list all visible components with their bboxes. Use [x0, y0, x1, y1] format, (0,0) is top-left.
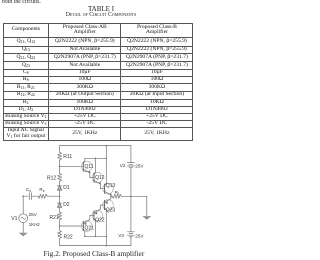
wire riser rail to Q13 collector	[105, 146, 107, 184]
resistor R11	[58, 152, 62, 160]
node V1 corner	[22, 195, 24, 197]
wire V3 to bottom rail	[130, 237, 132, 246]
node riser on top rail	[106, 145, 108, 147]
wire output to RL	[111, 195, 112, 197]
wire Q11 base lead	[60, 165, 84, 167]
bottom rail	[60, 245, 131, 247]
node R11/R12 junction	[59, 166, 61, 168]
AC source V1	[19, 214, 28, 223]
table title	[4, 5, 198, 13]
svg-text:V2: V2	[120, 163, 126, 168]
wire R21 to node	[59, 220, 61, 226]
wire RL to supply midpoint	[122, 195, 147, 197]
wire midpoint to V3	[130, 196, 132, 232]
node riser on bottom rail	[106, 245, 108, 247]
wire Q21 base lead	[60, 225, 84, 227]
wire D1 to input node	[59, 190, 61, 196]
wire D2 to R21	[59, 207, 61, 212]
transistor Q23	[103, 196, 114, 210]
transistor Q11	[82, 158, 95, 177]
schematic figure	[0, 0, 194, 260]
diode D1	[57, 186, 62, 190]
wire node to R22	[59, 226, 61, 231]
svg-text:V1: V1	[11, 216, 17, 222]
svg-text:R21: R21	[50, 215, 59, 221]
resistor R22	[58, 231, 62, 239]
svg-text:Q11: Q11	[85, 164, 94, 170]
svg-text:Q23: Q23	[106, 207, 116, 213]
svg-text:Q12: Q12	[95, 175, 105, 181]
transistor Q12	[92, 158, 105, 188]
svg-text:25V: 25V	[135, 164, 144, 169]
transistor Q13	[103, 183, 114, 196]
svg-text:R11: R11	[63, 154, 72, 160]
battery V2	[127, 163, 134, 168]
top rail	[60, 145, 131, 147]
node input junction	[59, 195, 61, 197]
diode D2	[57, 203, 62, 207]
wire R column top	[59, 146, 61, 153]
figure caption	[44, 249, 145, 258]
svg-text:V3: V3	[118, 233, 124, 238]
table: detail of circuit components	[3, 23, 194, 141]
ground V1	[19, 233, 28, 237]
wire input node to D2	[59, 196, 61, 203]
transistor Q21	[82, 216, 95, 237]
resistor RL	[112, 194, 121, 198]
svg-text:D1: D1	[63, 185, 70, 191]
transistor Q22	[92, 205, 105, 236]
wire Cs to Rs	[32, 195, 39, 197]
svg-text:25V: 25V	[29, 212, 38, 217]
wire R22 to bottom rail	[59, 239, 61, 246]
svg-text:Q13: Q13	[106, 183, 116, 189]
collector bus upper	[85, 157, 107, 159]
node Q22 collector on lower bus	[95, 236, 97, 238]
wire R12 to D1	[59, 181, 61, 186]
resistor R12	[58, 173, 62, 181]
svg-text:Q22: Q22	[95, 217, 105, 223]
wire V1 top to input	[23, 196, 28, 214]
wire R11 to node	[59, 160, 61, 166]
top partial paragraph text	[2, 0, 41, 5]
svg-text:25V: 25V	[135, 233, 144, 238]
svg-text:RL: RL	[115, 190, 120, 196]
wire V1 bottom to ground	[22, 223, 24, 233]
node midpoint junction	[130, 196, 132, 198]
ground	[142, 216, 151, 220]
svg-text:R22: R22	[64, 235, 73, 241]
battery V3	[127, 232, 134, 237]
svg-text:1KHz: 1KHz	[29, 222, 41, 227]
resistor R21	[58, 212, 62, 220]
wire Rs to input node	[47, 195, 59, 197]
svg-text:Cs: Cs	[26, 187, 31, 193]
resistor Rs	[38, 194, 47, 198]
wire node to R12	[59, 166, 61, 173]
capacitor Cs	[29, 193, 31, 200]
svg-text:Rs: Rs	[39, 187, 44, 193]
node Q12 collector on bus	[95, 158, 97, 160]
svg-text:R12: R12	[47, 175, 56, 181]
node riser on bus	[106, 158, 108, 160]
collector bus lower	[85, 235, 107, 237]
svg-text:D2: D2	[63, 202, 70, 208]
wire V2 to midpoint	[130, 168, 132, 197]
node output junction	[110, 196, 112, 198]
node riser on lower bus	[106, 236, 108, 238]
wire riser Q23 collector to bottom rail	[105, 211, 107, 246]
node R21/R22 junction	[59, 225, 61, 227]
svg-text:Q21: Q21	[85, 226, 95, 232]
node Q21 collector on lower bus	[84, 236, 86, 238]
wire rail to V2	[130, 146, 132, 163]
wire to ground	[146, 196, 148, 216]
